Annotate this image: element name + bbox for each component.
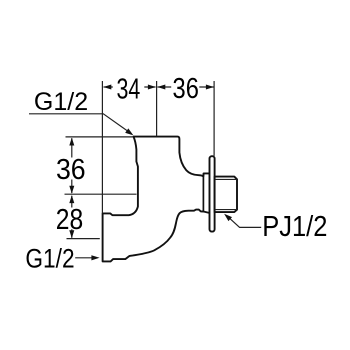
left dim arrow down at 238 xyxy=(69,230,74,238)
top dimension line segments xyxy=(104,86,214,88)
extension line left (x=102.4) xyxy=(101,81,103,213)
left dimension line segments xyxy=(71,138,73,238)
svg-text:PJ1/2: PJ1/2 xyxy=(262,210,327,243)
leader G1/2 bottom arrowhead xyxy=(91,255,99,260)
extension line y=137 xyxy=(66,136,134,138)
left dim arrow down at 194 xyxy=(69,186,74,194)
wall flange xyxy=(210,156,215,231)
thread root line top xyxy=(215,178,237,180)
top dim arrow mid-left-pointing xyxy=(157,85,165,90)
hub face line xyxy=(202,174,204,212)
leader PJ1/2 arrowhead xyxy=(224,214,232,221)
fitting body outline xyxy=(103,137,210,262)
left dim arrow up at 195 xyxy=(69,195,74,203)
leader G1/2 top underline xyxy=(29,114,132,134)
leader G1/2 top arrowhead xyxy=(125,128,133,135)
top dim arrow right xyxy=(206,85,214,90)
thread root line bottom xyxy=(215,209,237,211)
svg-text:36: 36 xyxy=(173,72,199,105)
top dim arrow left xyxy=(103,85,111,90)
svg-text:36: 36 xyxy=(56,153,86,185)
left dim arrow up at 137 xyxy=(69,138,74,146)
threaded nipple PJ1/2 xyxy=(215,177,237,213)
svg-text:34: 34 xyxy=(117,74,141,106)
extension line middle (x=156.6) xyxy=(156,81,158,136)
top dim arrow mid-right-pointing xyxy=(148,85,156,90)
svg-text:G1/2: G1/2 xyxy=(34,88,88,116)
extension line right (x=214.1) xyxy=(213,81,215,156)
extension line y=238.6 xyxy=(67,238,100,240)
svg-text:G1/2: G1/2 xyxy=(25,244,74,274)
leader PJ1/2 line xyxy=(230,218,262,227)
leader G1/2 bottom line xyxy=(75,257,93,259)
extension line y=194.2 xyxy=(65,193,137,195)
svg-text:28: 28 xyxy=(56,203,83,235)
